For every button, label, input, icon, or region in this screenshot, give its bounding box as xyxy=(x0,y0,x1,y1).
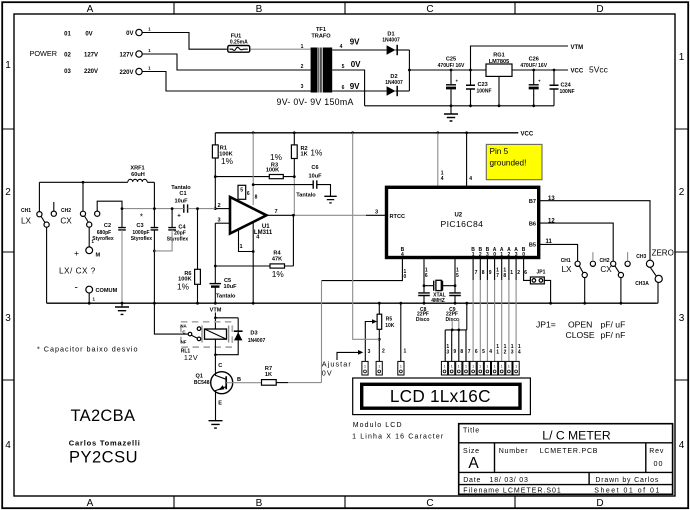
svg-text:+: + xyxy=(74,248,79,258)
svg-text:Tantalo: Tantalo xyxy=(216,294,236,300)
diode D3 xyxy=(215,318,238,355)
pin 7 output xyxy=(267,214,294,216)
VCC feed to R5 / LCD pin2 xyxy=(353,133,380,339)
svg-text:Rev: Rev xyxy=(649,448,664,455)
relay coil bottom pin xyxy=(214,339,216,372)
svg-text:Title: Title xyxy=(463,427,480,434)
ground symbol power xyxy=(450,106,452,114)
svg-text:BC548: BC548 xyxy=(194,380,210,386)
svg-text:B: B xyxy=(237,377,241,383)
svg-text:LCMETER.PCB: LCMETER.PCB xyxy=(540,448,599,455)
svg-text:1: 1 xyxy=(479,365,481,369)
svg-text:0: 0 xyxy=(404,274,407,280)
svg-text:3: 3 xyxy=(375,209,378,215)
wire 220V to trafo pin3 xyxy=(142,72,310,92)
svg-text:2: 2 xyxy=(5,187,11,198)
svg-text:2: 2 xyxy=(382,349,385,355)
svg-text:0V: 0V xyxy=(351,60,361,69)
svg-text:A: A xyxy=(468,455,479,472)
svg-text:CH3: CH3 xyxy=(636,254,646,260)
op-amp supply wire pin 8 xyxy=(252,133,254,205)
svg-text:4: 4 xyxy=(441,176,444,182)
svg-text:02: 02 xyxy=(64,53,71,59)
svg-text:TRAFO: TRAFO xyxy=(311,34,331,40)
pin 2 wire xyxy=(215,208,230,210)
svg-text:pF/ nF: pF/ nF xyxy=(601,330,626,340)
svg-text:470UF/ 16V: 470UF/ 16V xyxy=(520,63,547,69)
svg-text:1: 1 xyxy=(400,365,402,369)
svg-text:U2: U2 xyxy=(454,212,462,218)
svg-text:Pin 5: Pin 5 xyxy=(490,147,509,156)
svg-text:4: 4 xyxy=(401,252,404,258)
svg-text:JP1: JP1 xyxy=(537,269,546,275)
PIC B4 wire to R7 xyxy=(322,258,403,281)
svg-text:11: 11 xyxy=(546,239,553,245)
resistor R6 xyxy=(197,209,199,270)
svg-text:8: 8 xyxy=(482,270,485,276)
resistor R4 xyxy=(215,215,293,266)
svg-text:1: 1 xyxy=(301,44,304,50)
svg-text:10uF: 10uF xyxy=(308,173,322,179)
R5 trimpot xyxy=(378,303,380,314)
svg-text:1: 1 xyxy=(515,365,517,369)
capacitor C8 xyxy=(423,286,425,293)
XTAL pin stubs xyxy=(424,258,455,286)
grid row ticks left xyxy=(3,129,15,380)
svg-text:R5: R5 xyxy=(386,316,393,322)
svg-text:Q1: Q1 xyxy=(196,373,203,379)
svg-text:3: 3 xyxy=(368,349,371,355)
data wires PIC to LCD xyxy=(473,258,516,280)
svg-text:1: 1 xyxy=(510,270,513,276)
svg-text:M: M xyxy=(96,253,101,259)
svg-text:CH2: CH2 xyxy=(61,208,71,214)
svg-text:Number: Number xyxy=(499,448,529,455)
svg-text:TA2CBA: TA2CBA xyxy=(71,407,136,425)
svg-text:Modulo LCD: Modulo LCD xyxy=(353,422,403,429)
svg-text:Styroflex: Styroflex xyxy=(92,236,114,242)
Ajustar 0V arrow xyxy=(337,352,361,360)
svg-text:1K: 1K xyxy=(265,372,272,378)
svg-text:grounded!: grounded! xyxy=(490,159,527,168)
svg-text:3: 3 xyxy=(486,252,489,258)
pin 3 wire xyxy=(215,222,230,224)
svg-text:*: * xyxy=(140,212,143,221)
wire trafo pin4 to D1 xyxy=(332,49,386,51)
LCD pin1 ground wire xyxy=(400,303,402,361)
VCC rail oscillator xyxy=(215,132,518,134)
svg-text:1: 1 xyxy=(5,60,11,71)
svg-text:Styroflex: Styroflex xyxy=(167,236,189,242)
svg-text:6: 6 xyxy=(342,85,345,91)
capacitor C6 wire xyxy=(252,183,255,186)
svg-text:100NF: 100NF xyxy=(477,89,492,95)
LCD module box xyxy=(353,378,531,415)
tiny pin "1" markers xyxy=(364,365,517,369)
svg-text:B7: B7 xyxy=(529,199,536,205)
svg-text:-: - xyxy=(75,283,78,294)
svg-text:8: 8 xyxy=(255,194,258,200)
svg-text:1: 1 xyxy=(364,365,366,369)
svg-text:127V: 127V xyxy=(119,52,133,58)
pin3 / R4 / C5 vertical xyxy=(214,223,216,283)
svg-text:Size: Size xyxy=(463,448,480,455)
svg-text:1N4007: 1N4007 xyxy=(385,80,403,86)
jumper JP1 xyxy=(524,258,531,281)
svg-text:C26: C26 xyxy=(529,57,539,63)
svg-text:7: 7 xyxy=(274,209,277,215)
svg-text:1N4007: 1N4007 xyxy=(248,338,266,344)
resistor R2 xyxy=(293,133,295,145)
relay coil xyxy=(205,329,227,339)
svg-text:4MHZ: 4MHZ xyxy=(431,298,445,304)
capacitor C23 + VTM tap xyxy=(469,69,472,72)
svg-text:Ajustar: Ajustar xyxy=(322,360,352,369)
note Pin 5 grounded xyxy=(486,144,542,179)
svg-text:1: 1 xyxy=(404,349,407,355)
svg-text:COMUM: COMUM xyxy=(96,288,118,294)
svg-text:0V: 0V xyxy=(322,368,333,377)
PIC U2 pin 14 supply stub xyxy=(437,133,439,188)
svg-text:VTM: VTM xyxy=(210,307,222,313)
wire ground to relay common xyxy=(154,303,188,334)
svg-text:8: 8 xyxy=(503,273,506,279)
svg-text:NA: NA xyxy=(180,324,187,329)
capacitor C5 xyxy=(210,283,222,285)
svg-text:FU1: FU1 xyxy=(231,33,242,39)
wire trafo pin6 to D2 xyxy=(332,90,386,92)
svg-text:1: 1 xyxy=(451,365,453,369)
PIC right pin wires xyxy=(539,201,650,261)
svg-text:C: C xyxy=(218,363,222,369)
svg-text:127V: 127V xyxy=(84,53,98,59)
ground symbol Q1 xyxy=(209,421,223,428)
svg-text:TF1: TF1 xyxy=(316,27,326,33)
svg-text:13: 13 xyxy=(548,196,555,202)
svg-text:CH2: CH2 xyxy=(599,258,609,264)
svg-text:+: + xyxy=(177,214,181,220)
svg-text:10uF: 10uF xyxy=(224,284,238,290)
svg-text:6: 6 xyxy=(247,191,250,197)
svg-text:pF/ uF: pF/ uF xyxy=(601,319,626,329)
svg-text:Date: Date xyxy=(463,477,481,484)
svg-text:VCC: VCC xyxy=(571,69,584,75)
svg-text:1%: 1% xyxy=(310,147,323,157)
svg-text:2: 2 xyxy=(517,270,520,276)
grid column ticks top xyxy=(174,3,515,15)
svg-text:D: D xyxy=(596,498,603,509)
svg-text:C24: C24 xyxy=(561,83,572,89)
svg-text:6: 6 xyxy=(425,273,428,279)
svg-text:Drawn by Carlos: Drawn by Carlos xyxy=(595,477,659,484)
grid row ticks right xyxy=(675,129,688,380)
svg-text:3: 3 xyxy=(511,350,514,356)
svg-text:PY2CSU: PY2CSU xyxy=(69,449,138,467)
svg-text:Carlos Tomazelli: Carlos Tomazelli xyxy=(69,438,141,447)
svg-text:4: 4 xyxy=(340,44,343,50)
svg-text:5: 5 xyxy=(456,273,459,279)
svg-text:Filename LCMETER.S01: Filename LCMETER.S01 xyxy=(463,487,562,494)
svg-text:9V- 0V- 9V 150mA: 9V- 0V- 9V 150mA xyxy=(277,97,354,107)
svg-text:POWER: POWER xyxy=(30,49,58,58)
svg-text:LX: LX xyxy=(561,265,572,274)
svg-text:1%: 1% xyxy=(272,269,285,279)
svg-text:12: 12 xyxy=(548,218,555,224)
svg-text:100K: 100K xyxy=(266,168,279,174)
svg-text:2: 2 xyxy=(679,187,685,198)
svg-text:L/ C METER: L/ C METER xyxy=(542,428,611,442)
resistor R1 xyxy=(214,133,216,145)
svg-text:B: B xyxy=(256,4,263,15)
svg-text:9V: 9V xyxy=(350,82,360,91)
svg-text:1: 1 xyxy=(501,365,503,369)
svg-text:7: 7 xyxy=(475,270,478,276)
svg-text:PIC16C84: PIC16C84 xyxy=(440,219,483,229)
relay top wire to D3 xyxy=(215,317,238,319)
svg-text:D: D xyxy=(596,4,603,15)
op-amp U1 LM311 xyxy=(230,197,267,234)
svg-text:+: + xyxy=(456,79,459,84)
svg-text:1: 1 xyxy=(472,365,474,369)
svg-text:CH3A: CH3A xyxy=(635,281,649,287)
capacitor C24 xyxy=(553,69,556,72)
svg-text:1: 1 xyxy=(679,52,685,63)
relay RL1 dashed enclosure xyxy=(181,322,232,347)
svg-text:4: 4 xyxy=(518,350,521,356)
svg-text:2: 2 xyxy=(479,252,482,258)
svg-text:C25: C25 xyxy=(446,57,456,63)
svg-text:JP1=: JP1= xyxy=(536,319,556,329)
svg-text:B: B xyxy=(256,498,263,509)
pins 5/6 stub xyxy=(238,185,246,199)
resistor R3 xyxy=(215,176,294,178)
svg-text:12V: 12V xyxy=(184,353,198,362)
svg-text:0.25mA: 0.25mA xyxy=(230,40,248,46)
LCD connector pin boxes xyxy=(362,361,519,375)
svg-text:10K: 10K xyxy=(385,323,395,329)
svg-text:ZERO: ZERO xyxy=(652,248,674,257)
svg-text:1: 1 xyxy=(500,252,503,258)
svg-text:470UF/ 16V: 470UF/ 16V xyxy=(438,63,465,69)
relay core bars xyxy=(202,326,229,343)
svg-text:CX: CX xyxy=(600,265,612,274)
svg-text:CLOSE: CLOSE xyxy=(566,330,595,340)
svg-text:C1: C1 xyxy=(179,191,186,197)
capacitor C9 xyxy=(454,286,456,293)
svg-text:LCD 1Lx16C: LCD 1Lx16C xyxy=(390,386,491,406)
op-amp pins 1 and 4 xyxy=(239,222,254,303)
svg-text:6: 6 xyxy=(524,270,527,276)
svg-text:1: 1 xyxy=(444,365,446,369)
ground symbol C6 xyxy=(324,196,336,203)
svg-text:0V: 0V xyxy=(85,32,92,38)
svg-text:LX/ CX ?: LX/ CX ? xyxy=(59,267,96,276)
svg-text:00: 00 xyxy=(654,459,664,468)
svg-text:220V: 220V xyxy=(119,70,133,76)
svg-text:18/ 03/ 03: 18/ 03/ 03 xyxy=(490,477,529,484)
svg-text:4: 4 xyxy=(5,440,11,451)
svg-text:5: 5 xyxy=(240,188,243,194)
svg-text:NF: NF xyxy=(181,340,187,345)
svg-text:1: 1 xyxy=(496,350,499,356)
svg-text:3: 3 xyxy=(301,84,304,90)
svg-text:1: 1 xyxy=(486,365,488,369)
svg-text:2: 2 xyxy=(504,350,507,356)
svg-text:5: 5 xyxy=(482,349,485,355)
svg-text:1 Linha X 16 Caracter: 1 Linha X 16 Caracter xyxy=(352,434,444,441)
svg-text:C2: C2 xyxy=(104,223,111,229)
svg-text:1: 1 xyxy=(472,252,475,258)
svg-text:60uH: 60uH xyxy=(131,172,145,178)
svg-text:10uF: 10uF xyxy=(174,198,188,204)
svg-text:1: 1 xyxy=(458,365,460,369)
svg-text:B5: B5 xyxy=(529,243,536,249)
wire 0V to fuse xyxy=(142,33,227,50)
tank node wire xyxy=(122,208,215,210)
svg-text:C23: C23 xyxy=(478,82,488,88)
svg-text:C3: C3 xyxy=(136,223,143,229)
svg-text:3: 3 xyxy=(5,313,11,324)
svg-text:1%: 1% xyxy=(221,156,234,166)
svg-text:9: 9 xyxy=(453,349,456,355)
svg-text:1: 1 xyxy=(494,365,496,369)
svg-text:+: + xyxy=(538,79,541,84)
svg-text:Disco: Disco xyxy=(416,317,430,323)
svg-text:03: 03 xyxy=(64,69,71,75)
VCC output rail xyxy=(512,69,568,71)
svg-text:7: 7 xyxy=(468,349,471,355)
wire DC rail to regulator xyxy=(409,69,486,71)
svg-text:E: E xyxy=(218,401,222,407)
svg-text:2: 2 xyxy=(217,203,220,209)
svg-text:* Capacitor baixo desvio: * Capacitor baixo desvio xyxy=(37,344,139,353)
svg-text:VTM: VTM xyxy=(571,45,584,51)
svg-text:A: A xyxy=(87,4,94,15)
svg-text:1K: 1K xyxy=(301,151,308,157)
svg-text:4: 4 xyxy=(679,440,685,451)
svg-text:C: C xyxy=(426,498,433,509)
svg-text:RG1: RG1 xyxy=(493,53,505,59)
ground symbol bus xyxy=(121,303,123,307)
svg-text:1N4007: 1N4007 xyxy=(382,38,400,44)
power ground return rail xyxy=(365,105,554,107)
svg-text:7: 7 xyxy=(496,273,499,279)
svg-text:9: 9 xyxy=(489,270,492,276)
svg-text:Tantalo: Tantalo xyxy=(296,192,316,198)
grounded data lines pins 13 9 8 7 xyxy=(445,303,467,330)
svg-text:B6: B6 xyxy=(529,221,536,227)
svg-text:3: 3 xyxy=(217,217,220,223)
svg-text:0V: 0V xyxy=(126,31,133,37)
wire trafo pin5 down xyxy=(332,70,364,106)
svg-text:5Vcc: 5Vcc xyxy=(589,65,609,75)
svg-text:100NF: 100NF xyxy=(560,89,575,95)
svg-text:3: 3 xyxy=(515,252,518,258)
svg-text:6: 6 xyxy=(475,349,478,355)
svg-text:2: 2 xyxy=(301,64,304,70)
svg-text:0: 0 xyxy=(522,252,525,258)
wire 127V to trafo pin2 xyxy=(142,54,310,70)
svg-text:1: 1 xyxy=(508,365,510,369)
svg-text:A: A xyxy=(87,498,94,509)
svg-text:2: 2 xyxy=(508,252,511,258)
svg-text:3: 3 xyxy=(446,350,449,356)
PIC U2 pin 4 stub xyxy=(466,133,468,188)
svg-text:VCC: VCC xyxy=(521,132,534,138)
svg-text:1%: 1% xyxy=(270,152,283,162)
svg-text:Sheet 01 of 01: Sheet 01 of 01 xyxy=(594,487,661,494)
svg-text:9V: 9V xyxy=(350,38,360,47)
svg-text:C: C xyxy=(426,4,433,15)
svg-text:1%: 1% xyxy=(177,282,190,292)
svg-text:CH1: CH1 xyxy=(561,258,571,264)
svg-text:CH1: CH1 xyxy=(21,208,31,214)
svg-text:1: 1 xyxy=(465,365,467,369)
svg-text:3: 3 xyxy=(679,313,685,324)
svg-text:1: 1 xyxy=(378,365,380,369)
svg-text:LX: LX xyxy=(21,217,32,226)
svg-text:C6: C6 xyxy=(311,165,318,171)
svg-text:Styroflex: Styroflex xyxy=(131,236,153,242)
svg-text:OPEN: OPEN xyxy=(568,319,592,329)
M terminal xyxy=(88,227,90,247)
PIC U2 PIC16C84 xyxy=(387,187,539,257)
svg-text:RTCC: RTCC xyxy=(390,214,406,220)
wire diode junction xyxy=(408,50,410,91)
svg-text:4: 4 xyxy=(469,176,472,182)
svg-text:220V: 220V xyxy=(84,69,98,75)
svg-text:01: 01 xyxy=(64,32,71,38)
grid column ticks bottom xyxy=(174,496,515,508)
svg-text:5: 5 xyxy=(342,64,345,70)
svg-text:4: 4 xyxy=(489,349,492,355)
svg-text:8: 8 xyxy=(460,349,463,355)
svg-text:D3: D3 xyxy=(250,330,257,336)
crystal XTAL 4MHZ xyxy=(424,285,455,287)
svg-text:1: 1 xyxy=(239,244,242,250)
svg-text:47K: 47K xyxy=(272,256,282,262)
svg-text:XRF1: XRF1 xyxy=(130,166,144,172)
svg-text:CX: CX xyxy=(60,217,72,226)
svg-text:0: 0 xyxy=(493,252,496,258)
ground bus rail xyxy=(47,302,657,304)
